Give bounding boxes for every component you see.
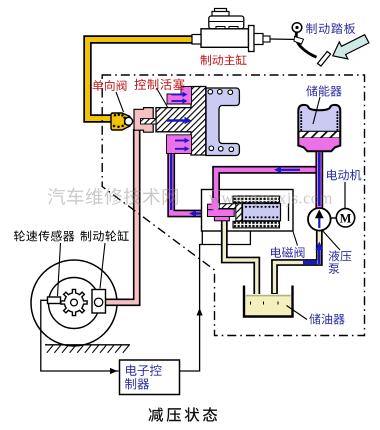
arrow on sensor wire [110, 368, 118, 374]
magenta lower port [167, 135, 192, 154]
oil reservoir [245, 294, 291, 315]
label 制动轮缸 [81, 230, 129, 241]
solenoid valve body (magenta) [208, 198, 235, 221]
brake master cylinder [192, 9, 270, 52]
label 轮速传感器 [14, 230, 74, 241]
solenoid coil windings [233, 196, 280, 203]
electronic controller (ECU) box [120, 360, 180, 395]
label 电磁阀 [271, 247, 304, 258]
hydraulic pump [308, 208, 331, 231]
blue arrow in horizontal magenta pipe (flow left) [281, 169, 300, 171]
check valve ball [125, 117, 133, 125]
brake pedal [296, 32, 316, 57]
leader lines [58, 88, 341, 320]
wire: wheel speed sensor to ECU [41, 300, 119, 371]
wire: ECU to solenoid valve [180, 232, 251, 372]
blue arrow in piston (moving right) [167, 119, 185, 122]
solenoid valve box [202, 190, 294, 232]
blue flow segment into pump [303, 261, 318, 265]
piston flange (lavender) [206, 88, 239, 156]
label 液压泵 [329, 250, 352, 261]
piston pink housing [134, 108, 153, 133]
wheel tire (outer circle) [31, 260, 117, 346]
wire: magenta pipe solenoid valve up and right to pump junction [216, 170, 319, 200]
wire: drain pipe solenoid valve to reservoir [224, 221, 256, 299]
label 储能器 [306, 85, 341, 96]
tone ring gear [61, 289, 87, 315]
blue flow core accumulator to pump [318, 153, 321, 207]
magenta pipe into valve [212, 191, 220, 204]
blue flow core in piston port pipe [170, 154, 172, 210]
wire: magenta pipe piston lower port to solenoid valve [171, 150, 206, 214]
label 制动踏板 [306, 23, 355, 34]
label 控制活塞 [134, 79, 184, 90]
wheel speed sensor [48, 297, 61, 304]
valve seat hatch [219, 204, 236, 209]
control piston hatched body [156, 87, 206, 156]
wire: suction pipe reservoir to pump [275, 229, 320, 294]
label 电子控制器 [126, 365, 162, 377]
blue arrow toward piston pipe (flow left) [196, 212, 205, 214]
solenoid armature [243, 204, 281, 221]
svg-text:www.qcwxjs.com: www.qcwxjs.com [209, 189, 333, 208]
wire: magenta pipe accumulator down to pump [315, 148, 323, 209]
wire: yellow brake pipe from master cylinder to check valve [88, 40, 193, 119]
magenta upper port [167, 87, 192, 105]
watermark [48, 188, 333, 208]
dash-dot boundary of ABS hydraulic unit [102, 75, 364, 336]
ground hatch [45, 344, 130, 346]
svg-text:M: M [340, 211, 352, 225]
label 单向阀 [93, 80, 127, 91]
caption 减压状态 [149, 407, 218, 422]
piston rod in housing bore [141, 119, 157, 124]
label 电动机 [327, 169, 361, 180]
wheel rim (inner circle) [49, 278, 100, 329]
check valve (yellow) [111, 113, 130, 130]
brake wheel cylinder [92, 290, 106, 314]
cyan arrow: pedal force [333, 35, 369, 59]
solenoid end stop [288, 204, 290, 222]
arrow on ECU wire (up) [197, 308, 203, 316]
wire: pink brake pipe from control piston to wheel cylinder [106, 129, 137, 302]
label 储油器 [309, 313, 344, 324]
electric motor M [331, 217, 337, 219]
label 制动主缸 [201, 54, 247, 65]
push rod [270, 38, 299, 41]
accumulator [298, 105, 340, 151]
